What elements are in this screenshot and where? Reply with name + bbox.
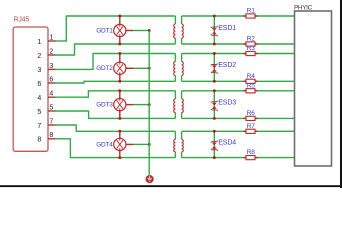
svg-text:ESD4: ESD4 (218, 139, 236, 146)
svg-text:R4: R4 (247, 73, 255, 80)
svg-text:4: 4 (37, 95, 41, 102)
svg-text:GDT4: GDT4 (96, 141, 113, 148)
svg-text:R2: R2 (247, 36, 255, 43)
svg-text:5: 5 (49, 104, 53, 111)
svg-text:ESD2: ESD2 (218, 62, 236, 69)
svg-text:3: 3 (37, 67, 41, 74)
svg-text:6: 6 (37, 81, 41, 88)
svg-text:R6: R6 (247, 110, 255, 117)
svg-text:ESD1: ESD1 (218, 25, 236, 32)
svg-text:7: 7 (49, 118, 53, 125)
svg-text:5: 5 (37, 109, 41, 116)
svg-text:3: 3 (49, 63, 53, 70)
svg-text:8: 8 (37, 137, 41, 144)
svg-text:2: 2 (49, 48, 53, 55)
svg-text:8: 8 (49, 132, 53, 139)
svg-text:R3: R3 (247, 45, 255, 52)
svg-text:1: 1 (49, 34, 53, 41)
svg-text:R1: R1 (247, 8, 255, 15)
svg-text:1: 1 (37, 39, 41, 46)
svg-text:GDT3: GDT3 (96, 102, 113, 109)
svg-text:R5: R5 (247, 82, 255, 89)
svg-text:R8: R8 (247, 149, 255, 156)
svg-text:PHYIC: PHYIC (294, 5, 313, 12)
svg-text:RJ45: RJ45 (14, 17, 30, 24)
svg-text:2: 2 (37, 53, 41, 60)
svg-text:6: 6 (49, 76, 53, 83)
svg-text:ESD3: ESD3 (218, 99, 236, 106)
svg-text:4: 4 (49, 91, 53, 98)
svg-text:GDT1: GDT1 (96, 27, 113, 34)
svg-text:R7: R7 (247, 123, 255, 130)
svg-text:7: 7 (37, 123, 41, 130)
svg-text:GDT2: GDT2 (96, 65, 113, 72)
